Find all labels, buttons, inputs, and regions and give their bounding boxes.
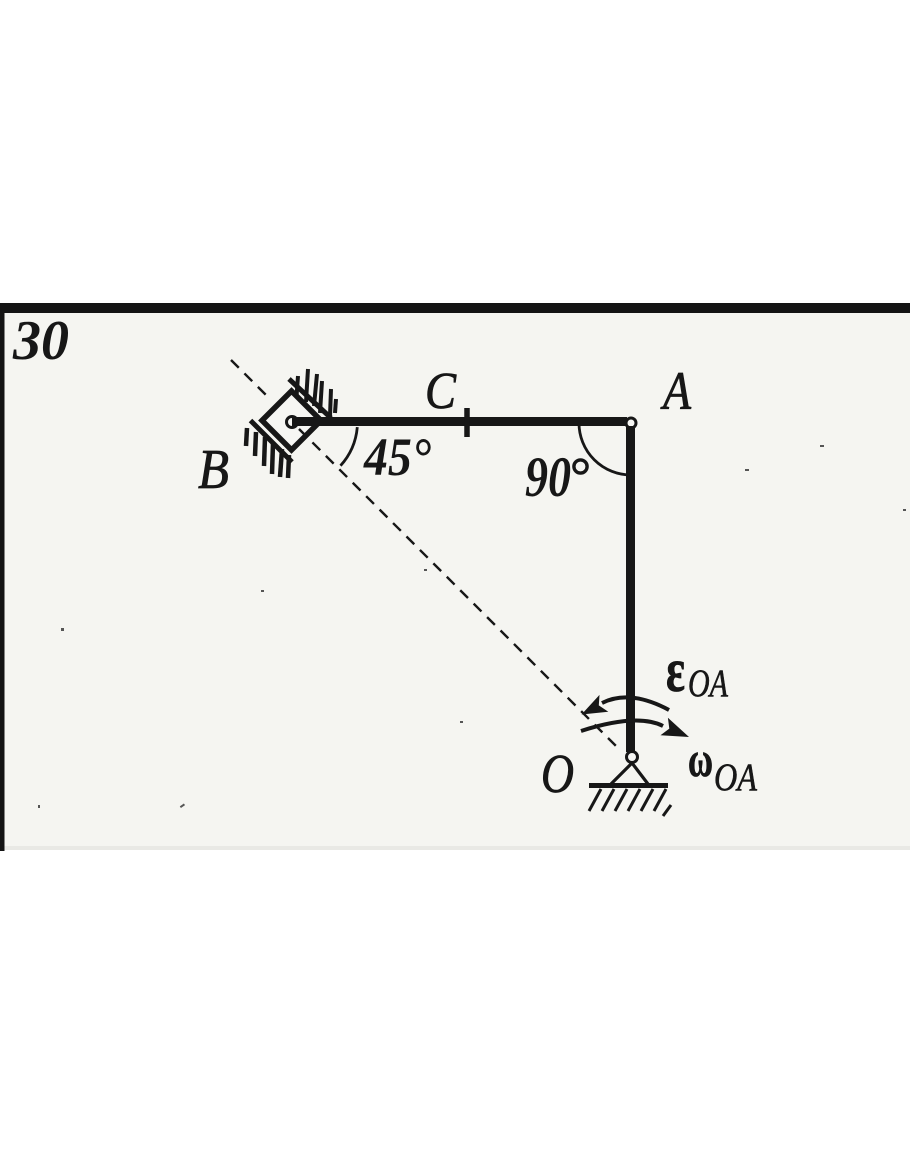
angle 45 arc bbox=[341, 427, 358, 466]
arrow omega OA arc bbox=[581, 721, 663, 731]
pin circle at O bbox=[627, 752, 638, 763]
guide rail upper hatching bbox=[296, 369, 336, 416]
page background bbox=[0, 303, 910, 846]
svg-text:C: C bbox=[425, 363, 457, 420]
svg-text:B: B bbox=[198, 439, 229, 501]
slider block B bbox=[262, 391, 321, 450]
svg-text:ω: ω bbox=[688, 731, 713, 787]
svg-text:45°: 45° bbox=[363, 427, 431, 487]
svg-text:90: 90 bbox=[525, 446, 571, 509]
dashed guide line lower segment bbox=[299, 429, 619, 749]
top border bbox=[0, 303, 910, 313]
angle 90 arc bbox=[579, 423, 631, 475]
ground line at O bbox=[589, 783, 668, 788]
speck marks bbox=[38, 445, 906, 808]
arrow epsilon OA arc bbox=[602, 697, 669, 710]
ground hatching at O bbox=[589, 789, 671, 816]
pin circle at A bbox=[626, 418, 636, 428]
guide rail lower hatching bbox=[246, 428, 289, 478]
dashed guide line upper segment bbox=[231, 360, 269, 398]
svg-text:OA: OA bbox=[714, 756, 757, 799]
svg-text:A: A bbox=[660, 361, 691, 421]
arrow omega OA head bbox=[661, 718, 690, 737]
svg-text:ε: ε bbox=[666, 637, 685, 705]
guide rail lower bbox=[251, 421, 293, 463]
arrow epsilon OA head bbox=[582, 695, 609, 715]
svg-text:30: 30 bbox=[12, 310, 69, 372]
svg-text:O: O bbox=[541, 743, 574, 804]
midpoint tick C bbox=[464, 408, 470, 437]
pinned support triangle at O bbox=[611, 763, 648, 784]
guide rail upper bbox=[289, 379, 331, 418]
left border bbox=[0, 303, 5, 851]
svg-text:OA: OA bbox=[688, 662, 728, 705]
rod BA bbox=[292, 417, 627, 426]
rod AO bbox=[626, 426, 635, 752]
pin circle at B bbox=[287, 417, 298, 428]
